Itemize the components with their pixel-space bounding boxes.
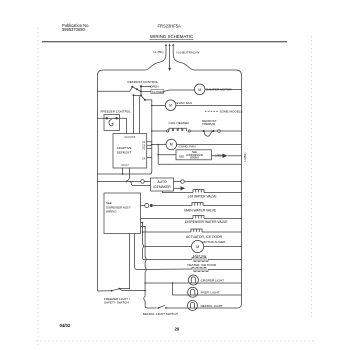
heater ice door — [192, 267, 242, 271]
resistor coil heater — [152, 128, 203, 132]
svg-text:WIRING: WIRING — [106, 210, 116, 214]
label MOTOR AUGER — [203, 240, 227, 244]
wire actuator row — [143, 231, 192, 233]
header title — [150, 34, 194, 39]
wire crisper row — [145, 282, 241, 284]
wire box bottom to heater row — [135, 234, 193, 270]
wire freezer light row — [173, 294, 242, 296]
wire main valve row with plug connector — [141, 203, 193, 207]
svg-text:C4: C4 — [142, 158, 146, 161]
footer page number — [175, 327, 180, 332]
label ACTUATOR ICE DOOR — [186, 235, 223, 239]
svg-text:GREEN: GREEN — [215, 154, 224, 157]
label FAST ICE — [193, 254, 207, 258]
svg-text:REFRIG. LIGHT: REFRIG. LIGHT — [201, 304, 223, 308]
feeder vertical v1 — [142, 223, 144, 260]
adaptive defrost pin labels top — [122, 136, 146, 167]
page perforation dotted line right — [311, 36, 313, 318]
coil L/M water valve — [193, 190, 242, 193]
svg-text:MOTOR AUGER: MOTOR AUGER — [203, 240, 227, 244]
wire dispenser valve row — [141, 218, 194, 220]
svg-text:M: M — [196, 245, 199, 249]
vertical label on right bus — [243, 152, 247, 161]
wire switch2 to evap fan and heater feed — [98, 100, 153, 175]
svg-text:04/02: 04/02 — [60, 323, 71, 328]
wire bus to freezer control — [98, 117, 105, 119]
dispenser assembly box — [104, 193, 141, 234]
wire pin C6 down to dispenser box — [122, 168, 124, 174]
svg-text:REFRIG. LIGHT SWITCH: REFRIG. LIGHT SWITCH — [143, 312, 178, 316]
wire freezer control to pin C2 — [120, 118, 127, 133]
lamp crisper light — [188, 275, 198, 285]
ground arrow — [168, 68, 171, 71]
wire bus to defrost control — [98, 90, 130, 92]
svg-text:FREEZER CONTROL: FREEZER CONTROL — [101, 110, 132, 114]
svg-text:OPEN: OPEN — [150, 84, 159, 88]
svg-text:ACTUATOR, ICE DOOR: ACTUATOR, ICE DOOR — [186, 235, 223, 239]
feeder vertical v2 — [144, 227, 157, 309]
icemaker ground stub arrow — [174, 186, 186, 190]
page perforation dotted line bottom — [36, 340, 315, 342]
right bus neutral — [236, 70, 241, 308]
auto icemaker box — [151, 178, 174, 191]
connector circle icemaker left — [141, 180, 151, 184]
svg-text:SAFETY SWITCH: SAFETY SWITCH — [104, 300, 129, 304]
wire L1 supply prong — [165, 44, 167, 54]
svg-text:AUTO: AUTO — [157, 180, 167, 184]
link crisper to freezer row — [172, 282, 174, 295]
wire pin C7 to icemaker row — [98, 168, 151, 186]
defrost control switch 2 — [133, 94, 146, 133]
evap fan motor — [165, 100, 176, 111]
label RED — [179, 155, 184, 158]
wire L1 curve to left bus — [103, 54, 166, 71]
wire compressor row — [157, 145, 241, 165]
wire icemaker right with connector circle — [174, 180, 242, 184]
label L/M WATER VALVE — [188, 195, 218, 199]
wire auger motor row — [145, 246, 241, 248]
svg-text:THERMO.: THERMO. — [202, 122, 216, 126]
label HEATER ICE DOOR — [187, 263, 217, 267]
motor auger — [192, 240, 204, 252]
wire cond fan row — [152, 144, 242, 146]
header text model — [158, 24, 181, 29]
svg-text:COND. FAN: COND. FAN — [179, 144, 196, 148]
label L1 (BK) — [153, 50, 163, 54]
svg-text:L/M WATER VALVE: L/M WATER VALVE — [188, 195, 218, 199]
label EVAP. FAN — [177, 101, 192, 105]
svg-text:SOME MODELS: SOME MODELS — [220, 110, 243, 114]
label DAMPER MOTOR — [206, 88, 232, 92]
svg-text:DEFROST CONTROL: DEFROST CONTROL — [128, 80, 159, 84]
freezer light safety switch — [98, 288, 146, 292]
svg-text:N (NEUTRAL) W: N (NEUTRAL) W — [177, 51, 200, 55]
svg-text:DEFROST: DEFROST — [117, 151, 132, 155]
label COND. FAN — [179, 144, 196, 148]
defrost control switch 1 — [130, 85, 151, 96]
svg-text:M: M — [170, 143, 173, 147]
annotation SOME MODELS — [205, 110, 243, 114]
label DEFROST CONTROL — [128, 80, 159, 84]
wire neutral row — [158, 163, 241, 165]
label CRISPER LIGHT — [201, 279, 225, 283]
label N (NEUTRAL) — [177, 51, 200, 55]
ground arrow compressor — [223, 154, 228, 158]
svg-text:CRISPER LIGHT: CRISPER LIGHT — [201, 279, 225, 283]
wire icemaker to LM valve row — [163, 191, 194, 193]
header text publication number — [62, 23, 90, 32]
label MAIN WATER VALVE — [184, 209, 217, 213]
svg-text:FRZR. LIGHT: FRZR. LIGHT — [201, 291, 220, 295]
lamp refrig light — [188, 301, 198, 311]
svg-text:5995370680: 5995370680 — [62, 27, 85, 32]
svg-text:DAMPER MOTOR: DAMPER MOTOR — [206, 88, 232, 92]
damper motor DM — [194, 84, 205, 95]
label DEFROST THERMO — [202, 119, 217, 126]
svg-text:L1 (BK): L1 (BK) — [153, 50, 163, 54]
svg-text:WIRING SCHEMATIC: WIRING SCHEMATIC — [150, 34, 193, 39]
wire box bottom to safety switch — [119, 234, 129, 289]
svg-text:ADAPTIVE: ADAPTIVE — [117, 146, 132, 150]
wire damper row — [205, 89, 242, 91]
coil main water valve — [192, 203, 242, 206]
refrig light switch — [157, 305, 188, 309]
svg-text:M: M — [169, 104, 172, 108]
wire stub feeder — [0, 0, 1, 1]
label COIL HEATER — [169, 121, 190, 125]
label CLOSED boxed — [141, 89, 194, 93]
header rule — [42, 41, 287, 43]
condenser fan motor — [166, 139, 177, 150]
defrost thermostat — [203, 130, 242, 136]
svg-text:C6 C7: C6 C7 — [122, 164, 130, 167]
svg-text:EVAP. FAN: EVAP. FAN — [177, 101, 192, 105]
wire neutral prong — [172, 44, 174, 54]
left bus L1 — [98, 70, 104, 291]
svg-text:FRS23HF5A: FRS23HF5A — [158, 24, 181, 29]
label FREEZER CONTROL — [101, 110, 132, 114]
label REFRIG LIGHT — [201, 304, 223, 308]
label DISPENSER WATER VALVE — [185, 220, 228, 224]
svg-text:CLOSED: CLOSED — [152, 90, 165, 94]
svg-text:HEATER, ICE DOOR: HEATER, ICE DOOR — [187, 263, 217, 267]
label ADAPTIVE DEFROST — [117, 146, 132, 155]
adaptive defrost box — [113, 134, 147, 169]
label OPEN — [150, 84, 159, 88]
svg-text:L1(BK): L1(BK) — [243, 152, 247, 161]
svg-text:M: M — [198, 88, 201, 92]
freezer control box — [104, 115, 120, 131]
wire box output to feeder v1 — [141, 222, 144, 224]
wire neutral curve to right bus — [173, 54, 236, 71]
coil actuator ice door — [191, 229, 242, 232]
wire switch1 common down to pin C3 — [133, 95, 135, 133]
wire refrig lamp to bus — [188, 307, 237, 309]
label FRZR LIGHT — [201, 291, 220, 295]
wire ground prong — [169, 44, 171, 68]
wire box output to feeder v2 — [141, 226, 146, 228]
coil dispenser water valve — [193, 216, 242, 219]
svg-text:DISPENSER WATER VALVE: DISPENSER WATER VALVE — [185, 220, 228, 224]
lamp freezer light — [188, 287, 198, 297]
svg-text:C2 C3 F3: C2 C3 F3 — [125, 136, 136, 139]
svg-text:MAIN WATER VALVE: MAIN WATER VALVE — [184, 209, 217, 213]
svg-text:RED: RED — [179, 155, 184, 158]
svg-text:COIL HEATER: COIL HEATER — [169, 121, 190, 125]
label REFRIG LIGHT SWITCH — [143, 312, 178, 316]
label FREEZER LIGHT SAFETY SWITCH — [104, 297, 130, 305]
compressor box — [176, 150, 212, 160]
wire evap fan row — [152, 105, 242, 107]
svg-text:F2: F2 — [142, 147, 146, 150]
svg-text:ICEMAKER: ICEMAKER — [153, 185, 171, 189]
heater fast ice — [143, 257, 242, 261]
adaptive defrost right pin stubs — [147, 142, 152, 158]
footer date — [60, 323, 71, 328]
svg-text:20: 20 — [175, 327, 180, 332]
page perforation dotted line left — [37, 28, 39, 345]
label GREEN — [215, 154, 224, 157]
svg-text:WIRING: WIRING — [190, 157, 199, 160]
